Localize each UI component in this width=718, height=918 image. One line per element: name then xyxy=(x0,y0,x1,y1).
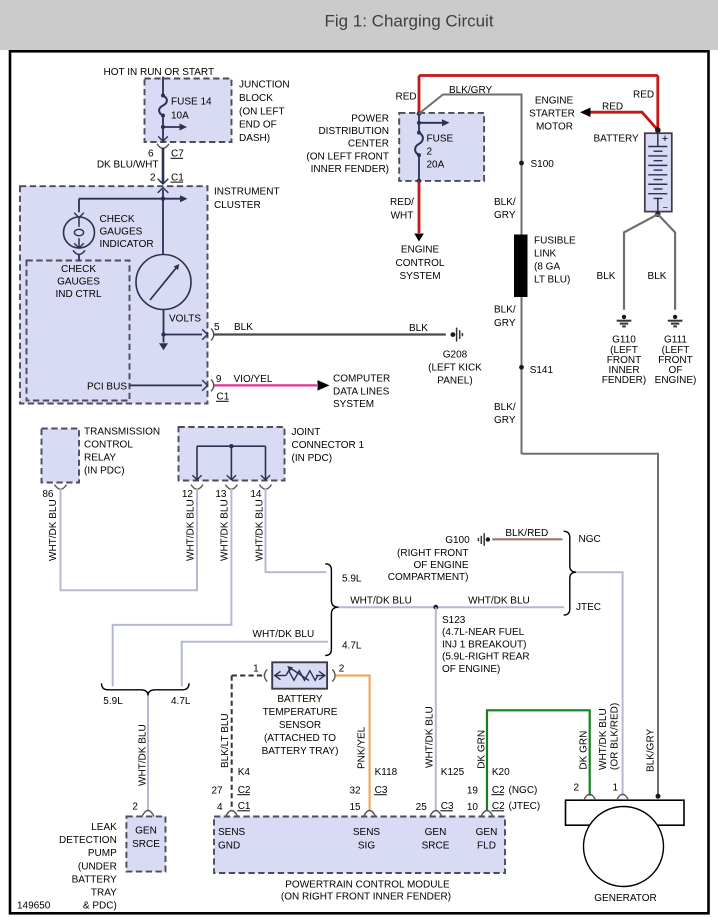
svg-text:2: 2 xyxy=(427,147,433,158)
svg-text:32: 32 xyxy=(349,786,361,797)
svg-text:SENSOR: SENSOR xyxy=(279,720,321,731)
svg-text:12: 12 xyxy=(182,489,194,500)
svg-text:BLK: BLK xyxy=(234,322,253,333)
svg-text:(ON LEFT: (ON LEFT xyxy=(239,106,285,117)
svg-text:ENGINE): ENGINE) xyxy=(655,375,697,386)
svg-text:VOLTS: VOLTS xyxy=(169,314,201,325)
svg-text:BLK/: BLK/ xyxy=(494,197,516,208)
svg-text:PUMP: PUMP xyxy=(88,848,117,859)
svg-text:(IN PDC): (IN PDC) xyxy=(84,466,125,477)
svg-text:INDICATOR: INDICATOR xyxy=(100,239,154,250)
svg-text:1: 1 xyxy=(253,663,259,674)
svg-text:S123: S123 xyxy=(442,615,466,626)
svg-text:10A: 10A xyxy=(171,111,189,122)
svg-text:(IN PDC): (IN PDC) xyxy=(292,453,333,464)
svg-text:CENTER: CENTER xyxy=(348,139,389,150)
svg-text:BLK/RED: BLK/RED xyxy=(505,528,548,539)
svg-text:LEAK: LEAK xyxy=(91,822,117,833)
svg-text:S100: S100 xyxy=(531,159,555,170)
svg-text:GND: GND xyxy=(218,841,240,852)
svg-text:FUSE: FUSE xyxy=(427,133,454,144)
svg-text:2: 2 xyxy=(132,802,138,813)
svg-text:LINK: LINK xyxy=(534,249,557,260)
svg-text:(NGC): (NGC) xyxy=(509,785,538,796)
svg-text:DK GRN: DK GRN xyxy=(579,731,590,770)
svg-text:2: 2 xyxy=(339,663,345,674)
svg-text:RED/: RED/ xyxy=(390,197,414,208)
svg-text:15: 15 xyxy=(349,802,361,813)
svg-text:SRCE: SRCE xyxy=(422,841,450,852)
svg-text:BATTERY: BATTERY xyxy=(277,694,323,705)
svg-text:GAUGES: GAUGES xyxy=(100,227,143,238)
svg-text:(ATTACHED TO: (ATTACHED TO xyxy=(264,733,336,744)
svg-text:27: 27 xyxy=(211,786,223,797)
svg-text:JUNCTION: JUNCTION xyxy=(239,80,290,91)
svg-text:SIG: SIG xyxy=(358,841,375,852)
svg-text:HOT IN RUN OR START: HOT IN RUN OR START xyxy=(104,67,215,78)
svg-text:LT BLU): LT BLU) xyxy=(534,275,570,286)
svg-text:GRY: GRY xyxy=(494,210,516,221)
svg-text:SENS: SENS xyxy=(218,827,246,838)
svg-text:FUSE 14: FUSE 14 xyxy=(171,97,212,108)
svg-text:BLK: BLK xyxy=(409,323,428,334)
svg-text:(OR BLK/RED): (OR BLK/RED) xyxy=(609,703,620,770)
svg-text:INSTRUMENT: INSTRUMENT xyxy=(214,187,280,198)
svg-text:COMPUTER: COMPUTER xyxy=(333,374,390,385)
svg-text:G208: G208 xyxy=(443,350,468,361)
svg-text:K20: K20 xyxy=(492,767,510,778)
svg-text:FENDER): FENDER) xyxy=(602,375,646,386)
svg-text:K118: K118 xyxy=(375,767,398,778)
svg-text:BLK/: BLK/ xyxy=(494,402,516,413)
svg-text:DETECTION: DETECTION xyxy=(59,835,117,846)
svg-text:SYSTEM: SYSTEM xyxy=(333,399,374,410)
svg-text:CONTROL: CONTROL xyxy=(396,258,445,269)
svg-text:TRANSMISSION: TRANSMISSION xyxy=(84,427,160,438)
svg-text:GEN: GEN xyxy=(425,827,447,838)
svg-text:NGC: NGC xyxy=(579,534,601,545)
svg-text:4.7L: 4.7L xyxy=(171,696,191,707)
svg-text:WHT/DK BLU: WHT/DK BLU xyxy=(425,706,436,768)
svg-text:END OF: END OF xyxy=(239,120,277,131)
svg-text:(LEFT KICK: (LEFT KICK xyxy=(428,363,482,374)
svg-text:149650: 149650 xyxy=(17,901,51,912)
svg-text:BATTERY: BATTERY xyxy=(72,874,118,885)
svg-text:(ON RIGHT FRONT INNER FENDER): (ON RIGHT FRONT INNER FENDER) xyxy=(281,892,451,903)
svg-text:CHECK: CHECK xyxy=(61,264,96,275)
svg-text:DK GRN: DK GRN xyxy=(477,730,488,769)
svg-text:WHT/DK BLU: WHT/DK BLU xyxy=(253,629,315,640)
svg-text:9: 9 xyxy=(216,374,222,385)
svg-text:RED: RED xyxy=(396,92,417,103)
svg-text:BLK: BLK xyxy=(648,271,667,282)
svg-text:G100: G100 xyxy=(445,535,470,546)
svg-text:ENGINE: ENGINE xyxy=(535,96,574,107)
svg-text:4.7L: 4.7L xyxy=(342,641,362,652)
svg-text:86: 86 xyxy=(42,489,54,500)
svg-text:WHT/DK BLU: WHT/DK BLU xyxy=(220,499,231,561)
svg-text:SRCE: SRCE xyxy=(132,839,160,850)
svg-text:(UNDER: (UNDER xyxy=(78,861,117,872)
svg-text:COMPARTMENT): COMPARTMENT) xyxy=(388,572,469,583)
svg-text:DK BLU/WHT: DK BLU/WHT xyxy=(97,160,159,171)
svg-text:POWER: POWER xyxy=(351,114,389,125)
svg-text:OF ENGINE): OF ENGINE) xyxy=(442,664,500,675)
svg-text:PANEL): PANEL) xyxy=(437,376,472,387)
svg-text:INJ 1 BREAKOUT): INJ 1 BREAKOUT) xyxy=(442,639,526,650)
svg-text:GRY: GRY xyxy=(494,318,516,329)
svg-text:4: 4 xyxy=(217,802,223,813)
svg-text:WHT/DK BLU: WHT/DK BLU xyxy=(186,499,197,561)
svg-text:INNER FENDER): INNER FENDER) xyxy=(311,164,389,175)
svg-text:BLOCK: BLOCK xyxy=(239,93,273,104)
svg-text:GRY: GRY xyxy=(494,415,516,426)
svg-text:DISTRIBUTION: DISTRIBUTION xyxy=(318,126,389,137)
svg-text:CHECK: CHECK xyxy=(100,214,135,225)
svg-text:RED: RED xyxy=(602,102,623,113)
svg-text:BATTERY: BATTERY xyxy=(594,134,640,145)
svg-text:Fig 1: Charging Circuit: Fig 1: Charging Circuit xyxy=(324,12,493,31)
svg-text:RED: RED xyxy=(633,90,654,101)
svg-text:2: 2 xyxy=(150,172,156,183)
svg-text:DATA LINES: DATA LINES xyxy=(333,386,390,397)
svg-text:(5.9L-RIGHT REAR: (5.9L-RIGHT REAR xyxy=(442,652,530,663)
svg-text:FUSIBLE: FUSIBLE xyxy=(534,236,576,247)
svg-text:BLK/: BLK/ xyxy=(494,305,516,316)
svg-text:POWERTRAIN CONTROL MODULE: POWERTRAIN CONTROL MODULE xyxy=(285,880,450,891)
svg-text:SYSTEM: SYSTEM xyxy=(399,271,440,282)
svg-text:CLUSTER: CLUSTER xyxy=(214,200,261,211)
svg-text:JOINT: JOINT xyxy=(292,427,321,438)
svg-text:K125: K125 xyxy=(441,767,465,778)
svg-text:TRAY: TRAY xyxy=(91,888,117,899)
svg-text:ENGINE: ENGINE xyxy=(401,245,440,256)
svg-text:GEN: GEN xyxy=(476,827,498,838)
svg-text:JTEC: JTEC xyxy=(576,602,601,613)
svg-text:WHT/DK BLU: WHT/DK BLU xyxy=(598,708,609,770)
svg-text:WHT/DK BLU: WHT/DK BLU xyxy=(255,499,266,561)
svg-text:6: 6 xyxy=(148,149,154,160)
svg-text:14: 14 xyxy=(250,489,262,500)
svg-text:GEN: GEN xyxy=(135,826,157,837)
svg-text:GENERATOR: GENERATOR xyxy=(594,893,656,904)
svg-text:13: 13 xyxy=(215,489,227,500)
svg-text:19: 19 xyxy=(467,786,479,797)
svg-text:WHT/DK BLU: WHT/DK BLU xyxy=(48,499,59,561)
svg-text:WHT/DK BLU: WHT/DK BLU xyxy=(350,595,412,606)
svg-text:OF ENGINE: OF ENGINE xyxy=(413,560,468,571)
svg-text:(4.7L-NEAR FUEL: (4.7L-NEAR FUEL xyxy=(442,627,525,638)
svg-text:PNK/YEL: PNK/YEL xyxy=(357,726,368,769)
svg-text:BLK/GRY: BLK/GRY xyxy=(645,729,656,772)
svg-text:IND CTRL: IND CTRL xyxy=(55,289,102,300)
svg-text:(8 GA: (8 GA xyxy=(534,262,560,273)
svg-text:CONTROL: CONTROL xyxy=(84,440,133,451)
svg-text:−: − xyxy=(663,202,668,212)
svg-text:RELAY: RELAY xyxy=(84,453,116,464)
svg-text:(ON LEFT FRONT: (ON LEFT FRONT xyxy=(306,151,389,162)
svg-text:WHT/DK BLU: WHT/DK BLU xyxy=(468,595,530,606)
svg-text:STARTER: STARTER xyxy=(529,109,575,120)
svg-text:WHT/DK BLU: WHT/DK BLU xyxy=(138,724,149,786)
svg-text:25: 25 xyxy=(416,802,428,813)
svg-text:PCI BUS: PCI BUS xyxy=(87,381,127,392)
svg-text:S141: S141 xyxy=(530,365,554,376)
svg-text:VIO/YEL: VIO/YEL xyxy=(234,374,273,385)
svg-text:CONNECTOR 1: CONNECTOR 1 xyxy=(292,440,365,451)
svg-text:WHT: WHT xyxy=(391,211,414,222)
svg-text:BATTERY TRAY): BATTERY TRAY) xyxy=(262,746,339,757)
svg-text:+: + xyxy=(662,133,668,145)
svg-text:FLD: FLD xyxy=(477,841,496,852)
svg-text:2: 2 xyxy=(574,783,580,794)
svg-text:& PDC): & PDC) xyxy=(83,901,117,912)
svg-text:10: 10 xyxy=(467,802,479,813)
svg-text:MOTOR: MOTOR xyxy=(536,122,573,133)
svg-text:5.9L: 5.9L xyxy=(342,574,362,585)
svg-text:DASH): DASH) xyxy=(239,133,270,144)
svg-text:BLK/LT BLU: BLK/LT BLU xyxy=(220,713,231,768)
svg-text:(RIGHT FRONT: (RIGHT FRONT xyxy=(397,548,468,559)
svg-text:BLK: BLK xyxy=(597,271,616,282)
svg-text:5.9L: 5.9L xyxy=(103,696,123,707)
svg-text:(JTEC): (JTEC) xyxy=(509,801,541,812)
svg-text:GAUGES: GAUGES xyxy=(57,277,100,288)
svg-text:5: 5 xyxy=(214,322,220,333)
svg-text:TEMPERATURE: TEMPERATURE xyxy=(263,707,338,718)
svg-text:K4: K4 xyxy=(238,767,251,778)
svg-text:SENS: SENS xyxy=(353,827,381,838)
svg-text:1: 1 xyxy=(613,783,619,794)
svg-text:20A: 20A xyxy=(427,160,445,171)
